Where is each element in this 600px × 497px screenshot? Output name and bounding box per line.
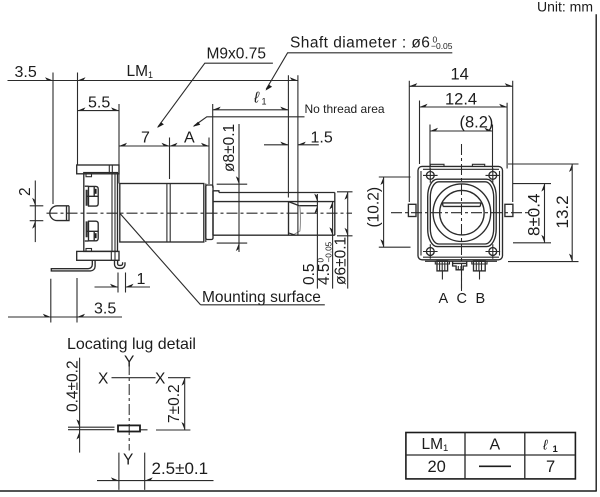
front view: encoder face — [366, 66, 579, 308]
svg-text:0.4±0.2: 0.4±0.2 — [65, 360, 82, 412]
ext line x169.5 — [169, 138, 171, 180]
bushing thread circle — [433, 184, 491, 242]
svg-text:Unit: mm: Unit: mm — [537, 0, 593, 15]
arrow 3.5 left — [45, 77, 53, 80]
svg-text:(10.2): (10.2) — [366, 187, 383, 228]
main body cylinder — [120, 184, 204, 243]
table row divider — [406, 454, 576, 456]
svg-text:7: 7 — [141, 130, 150, 147]
right side tab — [505, 204, 513, 216]
dim line 4.5 — [332, 201, 334, 288]
screw top-right — [486, 168, 501, 183]
ext line x209 — [208, 138, 210, 185]
ext lines x288.3 x297.8 — [288, 75, 298, 235]
svg-text:C: C — [457, 291, 467, 307]
ext line x212.7 — [212, 104, 214, 188]
terminal B comb — [472, 261, 487, 271]
svg-text:7: 7 — [546, 458, 555, 476]
arrow LM1 left — [78, 77, 86, 80]
page frame right border — [595, 14, 597, 491]
bottom lug step — [86, 249, 92, 252]
side view: encoder body — [8, 35, 453, 323]
svg-text:B: B — [476, 291, 486, 307]
shaft flat chord — [442, 203, 481, 207]
svg-text:A: A — [490, 437, 501, 454]
svg-text:(8.2): (8.2) — [460, 114, 494, 132]
svg-text:Shaft diameter : ø6: Shaft diameter : ø6 — [290, 35, 430, 52]
svg-text:1: 1 — [262, 97, 267, 107]
screw bottom-left — [423, 244, 438, 259]
terminal block upper — [85, 186, 98, 206]
bushing mount plate outer — [428, 179, 497, 246]
svg-text:No thread area: No thread area — [305, 102, 385, 116]
locating lug detail — [65, 336, 214, 490]
bushing mount plate inner — [430, 182, 493, 244]
shaft lower flat line — [299, 205, 317, 207]
svg-text:8±0.4: 8±0.4 — [525, 194, 544, 236]
screw top-left — [423, 168, 438, 183]
mount plane double lines — [68, 427, 148, 430]
bottom lug inner verticals — [111, 251, 115, 260]
svg-text:5.5: 5.5 — [88, 95, 110, 112]
thread relief neck — [293, 206, 300, 235]
table col dividers — [465, 433, 525, 479]
terminal C center — [453, 261, 467, 270]
svg-text:12.4: 12.4 — [445, 91, 477, 109]
svg-text:1.5: 1.5 — [311, 130, 333, 147]
body right edge double line — [205, 184, 207, 243]
rear round pin (2mm boss) — [50, 206, 69, 221]
svg-text:14: 14 — [451, 66, 469, 84]
thread relief diagonal — [289, 202, 300, 206]
svg-text:Locating lug detail: Locating lug detail — [67, 336, 196, 353]
svg-text:ℓ: ℓ — [542, 437, 548, 453]
lug cross-section — [118, 425, 140, 431]
svg-text:ø8±0.1: ø8±0.1 — [221, 124, 238, 172]
screw bottom-right — [486, 244, 501, 259]
svg-text:Mounting surface: Mounting surface — [202, 289, 321, 306]
dim line LM1/3.5 — [8, 80, 298, 82]
page frame bottom border — [0, 490, 597, 492]
svg-text:A: A — [439, 291, 449, 307]
top mounting lug bar — [77, 165, 119, 174]
dim line 0.5 — [316, 194, 318, 289]
pin end face line — [66, 206, 68, 221]
X-X line — [112, 377, 156, 379]
bushing end chamfer — [289, 233, 296, 235]
bent PCB pin lower-left — [51, 260, 95, 271]
shaft tip face — [334, 193, 336, 236]
ext line x77.5 — [77, 73, 79, 166]
dim line o6 — [347, 192, 349, 289]
svg-text:13.2: 13.2 — [553, 195, 572, 228]
svg-text:ℓ: ℓ — [253, 90, 260, 107]
plate inner verticals — [112, 174, 115, 251]
bottom flange line — [425, 260, 497, 262]
svg-text:7±0.2: 7±0.2 — [166, 384, 183, 423]
body inner frame — [421, 169, 500, 257]
svg-text:Y: Y — [123, 452, 133, 469]
svg-text:X: X — [155, 371, 166, 388]
left side tab — [408, 204, 416, 216]
ext line x53 — [52, 73, 54, 205]
top lug step — [86, 174, 92, 177]
right bent hook tab — [115, 260, 126, 268]
ext line x119 mounting surface — [118, 104, 120, 184]
table outer border — [406, 433, 576, 479]
arrow LM1 right — [290, 77, 298, 80]
svg-text:−0.05: −0.05 — [431, 41, 453, 51]
bushing end face — [288, 202, 290, 235]
bushing/shaft top line — [219, 192, 335, 194]
svg-text:2.5±0.1: 2.5±0.1 — [152, 459, 209, 478]
svg-text:4.5: 4.5 — [316, 263, 333, 285]
svg-text:3.5: 3.5 — [15, 64, 37, 81]
terminal block lower — [85, 221, 98, 241]
vertical centerline lug — [128, 364, 130, 451]
shaft circle — [440, 190, 485, 235]
dimension table — [406, 433, 576, 479]
svg-text:1: 1 — [553, 444, 559, 455]
svg-text:M9x0.75: M9x0.75 — [207, 46, 266, 63]
svg-text:1: 1 — [137, 271, 146, 288]
centerline side view — [47, 212, 353, 214]
value dash — [479, 465, 511, 467]
bushing/shaft bottom line — [213, 234, 335, 236]
svg-text:20: 20 — [428, 458, 446, 476]
svg-text:ø6±0.1: ø6±0.1 — [333, 237, 350, 285]
svg-text:3.5: 3.5 — [94, 301, 116, 318]
body square — [418, 166, 503, 259]
svg-text:X: X — [98, 371, 109, 388]
centerline vertical front — [461, 144, 463, 291]
dim line l1 — [213, 109, 289, 111]
shaft upper flat line — [213, 201, 335, 203]
front plate — [84, 173, 118, 252]
body seam double line — [167, 184, 170, 243]
svg-text:A: A — [184, 130, 195, 147]
terminal pin lines — [442, 270, 479, 289]
centerline horizontal front — [391, 212, 532, 214]
terminal A comb — [435, 261, 449, 271]
svg-text:2: 2 — [17, 187, 34, 196]
bushing step edge — [213, 191, 219, 235]
bottom mounting lug bar — [77, 251, 119, 260]
top lug inner verticals — [109, 165, 112, 174]
collar step — [206, 185, 213, 240]
top frame tabs — [430, 164, 484, 166]
